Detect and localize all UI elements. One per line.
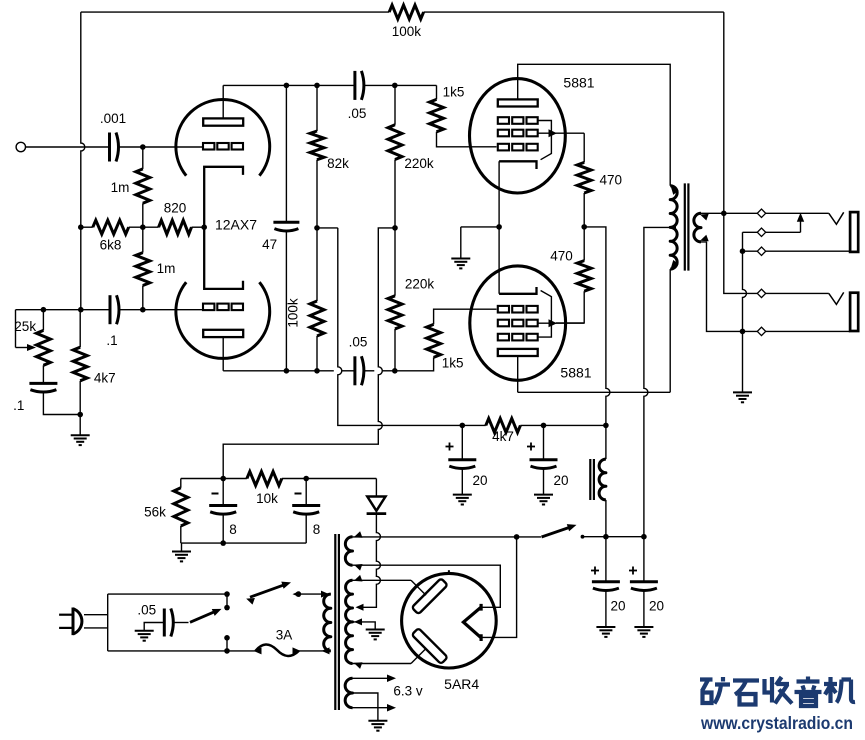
label 3A <box>276 628 293 643</box>
resistor 100k tail <box>310 301 324 336</box>
wire pot stubs <box>42 310 44 384</box>
plate V1b <box>203 330 243 337</box>
wire input to cap <box>26 146 110 148</box>
choke winding <box>599 459 606 500</box>
wire HV CT <box>353 622 376 630</box>
capacitor .05 upper <box>355 71 364 100</box>
svg-text:.05: .05 <box>348 106 367 121</box>
input jack terminal <box>16 142 25 151</box>
label 5AR4 <box>444 676 479 692</box>
fuse 3A <box>254 644 301 656</box>
wire 100k tail stubs <box>316 228 318 371</box>
wire cathode ground segment <box>461 226 499 228</box>
svg-text:56k: 56k <box>144 505 166 520</box>
wire screens to dropper <box>584 227 610 426</box>
wire bias row <box>181 478 377 480</box>
screen lead V2 <box>538 129 584 137</box>
selector arrow <box>797 213 804 233</box>
svg-text:4k7: 4k7 <box>492 429 514 444</box>
node cathodes <box>496 224 502 230</box>
svg-text:100k: 100k <box>285 298 300 328</box>
plug prongs <box>59 615 73 628</box>
resistor 220k upper <box>388 125 402 160</box>
wire lower rail <box>16 309 204 311</box>
wire pot cap to ground rail <box>43 392 80 414</box>
label 220k lower <box>405 277 435 292</box>
wire 1m lower stubs <box>142 227 144 310</box>
jack1 body <box>850 212 858 252</box>
wire diode top <box>375 479 377 497</box>
resistor 820 <box>159 220 192 234</box>
wire 82k stubs <box>316 85 318 228</box>
resistor 100k feedback <box>389 5 423 19</box>
resistor 1k5 lower <box>427 324 441 357</box>
watermark url <box>700 713 853 733</box>
svg-text:5AR4: 5AR4 <box>444 676 479 692</box>
beam bracket V3 <box>538 291 552 338</box>
ground jacks <box>733 392 752 402</box>
label 8 first <box>229 522 237 537</box>
svg-text:1k5: 1k5 <box>443 85 465 100</box>
wire secondary bottom <box>701 242 850 332</box>
svg-text:12AX7: 12AX7 <box>215 217 257 233</box>
label .05 upper <box>348 106 367 121</box>
arrow bias tap <box>356 604 364 611</box>
wire 56k corner <box>180 479 182 488</box>
wire plate V1a up <box>222 85 224 118</box>
node choke top <box>603 423 609 429</box>
wire bias branch x=378.3 <box>223 228 395 479</box>
wire 220k lower stubs <box>394 228 396 371</box>
svg-text:5881: 5881 <box>563 75 594 91</box>
wire 1k5 lower to grid <box>434 309 497 324</box>
wire 5V top to Bplus <box>353 536 517 538</box>
svg-text:470: 470 <box>600 173 623 188</box>
label 5881 lower <box>560 365 591 381</box>
node 6k8 left <box>78 224 84 230</box>
tube V1b 12AX7 envelope <box>176 282 270 358</box>
node 4k7 top <box>78 307 84 313</box>
svg-text:220k: 220k <box>405 277 435 292</box>
svg-text:1m: 1m <box>111 180 130 195</box>
resistor 10k <box>247 472 282 486</box>
label 6.3 v <box>393 684 423 699</box>
plate V3 <box>498 349 538 356</box>
label plus 4 <box>629 567 637 575</box>
wire 470 upper stubs <box>583 133 585 227</box>
grids V2 <box>498 117 538 150</box>
jack1 tip spring <box>829 212 844 224</box>
resistor 6k8 <box>93 220 129 234</box>
PT primary arrows <box>321 591 330 655</box>
PT HV winding <box>346 580 353 663</box>
svg-text:8: 8 <box>313 522 321 537</box>
cathode V3 <box>499 287 536 294</box>
label 4k7 cathode <box>94 371 116 386</box>
PT 6.3V winding <box>345 678 352 707</box>
node 4k7 bottom <box>77 412 83 418</box>
plate V2 <box>498 99 538 106</box>
wire 470 lower stubs <box>556 227 584 323</box>
wire top feedback rail <box>81 11 724 13</box>
svg-text:20: 20 <box>649 599 664 614</box>
node capswitch contact <box>224 605 230 611</box>
grids V3 <box>498 306 538 341</box>
resistor 1k5 upper <box>430 99 444 131</box>
node standby contact <box>581 535 585 539</box>
capacitor 47 <box>273 85 299 370</box>
tube V3 5881 envelope <box>470 266 566 380</box>
resistor 56k <box>174 488 188 526</box>
wire 6.3 bottom <box>353 704 397 712</box>
wire V1a plate row <box>223 84 395 86</box>
label 20 third <box>610 599 625 614</box>
ground mains cap <box>135 631 154 641</box>
wire ground drop jacks <box>743 232 747 392</box>
label 220k upper <box>404 156 434 171</box>
PT HV arrows <box>354 575 363 669</box>
plate V1a <box>203 118 243 125</box>
hop ext over ground drop <box>0 0 1 1</box>
cathode V2 <box>499 161 536 169</box>
plate V4 lower <box>412 628 448 664</box>
wire cap to grid V1a <box>118 146 203 148</box>
label minus 2 <box>295 493 302 495</box>
label 470 lower <box>550 249 573 264</box>
label 470 upper <box>600 173 623 188</box>
resistor 470 upper <box>577 162 591 193</box>
cathode V1b and feed <box>204 227 243 289</box>
svg-text:.1: .1 <box>13 398 24 413</box>
label 8 second <box>313 522 321 537</box>
svg-text:25k: 25k <box>14 319 36 334</box>
wire tap2 line <box>743 231 801 233</box>
svg-text:10k: 10k <box>256 491 278 506</box>
OPT secondary winding <box>694 213 701 242</box>
label 25k <box>14 319 36 334</box>
plate V4 upper <box>412 578 448 614</box>
PT 5V winding <box>345 537 352 566</box>
svg-text:www.crystalradio.cn: www.crystalradio.cn <box>700 713 853 733</box>
wire cathode feeds V2 <box>498 161 500 293</box>
jack2 body <box>850 293 858 331</box>
grid V1b <box>203 304 243 311</box>
wire mains bottom rail <box>108 650 331 652</box>
svg-text:47: 47 <box>262 237 277 252</box>
label 820 <box>164 201 187 216</box>
label 5881 upper <box>563 75 594 91</box>
label plus 1 <box>446 443 454 451</box>
label .001 <box>100 111 126 126</box>
label 47 <box>262 237 277 252</box>
capacitor .1 coupling <box>110 295 119 324</box>
node 82k top <box>314 83 320 89</box>
node 1m bottom <box>140 307 146 313</box>
tube V1a 12AX7 envelope <box>176 99 270 175</box>
resistor 1m grid upper <box>136 169 150 203</box>
label plus 3 <box>591 567 599 575</box>
resistor 4k7 dropper <box>486 418 521 432</box>
wire HV top to plate <box>353 580 427 595</box>
wire jack1 sleeve line <box>743 250 851 252</box>
node fuse stub a <box>224 635 230 641</box>
ground cathode bus <box>451 259 470 269</box>
label 100k <box>392 24 422 39</box>
ground bias <box>172 552 191 562</box>
svg-text:470: 470 <box>550 249 573 264</box>
node .05b right <box>392 368 398 374</box>
wire HV bottom to plate <box>353 649 427 664</box>
wire mains cap right <box>173 622 189 624</box>
wire 6k8 row <box>81 226 204 228</box>
OPT secondary arrows <box>700 214 709 241</box>
wire filament upper to 5V <box>353 565 501 607</box>
svg-text:6k8: 6k8 <box>100 238 122 253</box>
wire 1k5 upper to grid <box>437 85 497 146</box>
svg-text:6.3 v: 6.3 v <box>393 684 423 699</box>
label .05 lower <box>349 335 368 350</box>
label 20 second <box>553 473 568 488</box>
svg-text:.05: .05 <box>349 335 368 350</box>
beam bracket V2 <box>538 121 552 160</box>
cathode V1a and feed <box>204 167 243 227</box>
wire 1m stubs <box>142 147 144 227</box>
wire 4k7 row <box>462 424 606 426</box>
node Bplus cap <box>641 534 647 540</box>
node Bplus choke <box>603 534 609 540</box>
wire V1b plate row <box>223 370 395 372</box>
resistor 4k7 cathode <box>73 347 87 381</box>
wire branch x=337.8 <box>338 228 463 426</box>
capacitor .05 lower <box>355 356 364 385</box>
svg-text:1k5: 1k5 <box>442 356 464 371</box>
wire 4k7 stubs <box>79 310 81 415</box>
wire jog 82k junction <box>317 227 338 229</box>
wire mains cap left <box>144 623 164 631</box>
capacitor 20 second <box>530 425 558 494</box>
node tap3 <box>740 248 746 254</box>
svg-text:3A: 3A <box>276 628 293 643</box>
node 47cap top <box>284 83 290 89</box>
ground input stage <box>71 435 90 445</box>
capacitor 20 first <box>448 425 476 494</box>
node pot top <box>41 307 47 313</box>
label .1 coupling <box>106 333 117 348</box>
svg-text:.1: .1 <box>106 333 117 348</box>
label minus 1 <box>212 493 219 495</box>
label 1k5 upper <box>443 85 465 100</box>
diamond tap3 <box>757 247 765 255</box>
wire 56k bottom <box>180 526 182 543</box>
OPT primary winding <box>670 186 677 269</box>
label 10k <box>256 491 278 506</box>
filament V4 <box>463 604 481 641</box>
ground filter4 <box>634 627 653 637</box>
wire mains top rail <box>108 593 331 595</box>
node filter2 <box>541 423 547 429</box>
wire Bplus link <box>583 536 644 538</box>
watermark chinese <box>700 677 855 707</box>
svg-text:.001: .001 <box>100 111 126 126</box>
diamond tap2 <box>757 228 765 236</box>
wire to 1k5 lower <box>395 357 434 370</box>
node 220k junction <box>392 225 398 231</box>
node feedback tap <box>721 211 727 217</box>
label 20 first <box>472 473 487 488</box>
node 100k tail bottom <box>314 368 320 374</box>
node switch left <box>224 591 230 597</box>
node Bplus takeoff <box>514 534 520 540</box>
node switch right <box>293 591 302 597</box>
label 82k <box>327 156 349 171</box>
label 6k8 <box>100 238 122 253</box>
ground filter1 <box>453 495 472 505</box>
svg-text:1m: 1m <box>157 261 176 276</box>
resistor 470 lower <box>577 261 591 292</box>
node 820 junction <box>140 224 146 230</box>
wire plug to rails <box>84 594 108 651</box>
wire filament lower to Bplus <box>481 537 516 638</box>
wire right feedback drop x=723.8 <box>723 12 725 213</box>
PT core <box>335 534 339 710</box>
svg-text:100k: 100k <box>392 24 422 39</box>
svg-text:820: 820 <box>164 201 187 216</box>
svg-text:20: 20 <box>610 599 625 614</box>
label 12AX7 <box>215 217 257 233</box>
wire ground stem input <box>79 415 81 436</box>
capacitor 20 fourth <box>630 537 658 627</box>
capacitor 20 third <box>592 537 620 627</box>
wire to 1k5 upper <box>395 84 437 86</box>
wire 6.3 top <box>353 675 397 683</box>
node screens <box>581 224 587 230</box>
node 82k bottom <box>314 225 320 231</box>
svg-text:.05: .05 <box>137 603 156 618</box>
wire cap switch stub <box>226 594 228 608</box>
wire bias bottom rail <box>181 542 306 544</box>
node fuse stub b <box>224 648 230 654</box>
wire ground stem bus <box>460 227 462 259</box>
svg-text:20: 20 <box>553 473 568 488</box>
wire left feedback drop x=80.8 <box>81 12 85 310</box>
svg-text:4k7: 4k7 <box>94 371 116 386</box>
wire ext line <box>724 213 829 293</box>
wire plate V3 to OPT <box>518 269 671 392</box>
node cathode junction V1 <box>201 224 207 230</box>
resistor 82k <box>310 131 324 160</box>
potentiometer 25k <box>36 330 50 365</box>
node 47cap bottom <box>284 368 290 374</box>
resistor 220k lower <box>388 296 402 329</box>
capacitor .1 pot <box>29 383 57 392</box>
svg-text:8: 8 <box>229 522 237 537</box>
node filter1 <box>460 423 466 429</box>
wire choke stubs <box>605 425 607 536</box>
ground HV CT <box>366 630 385 640</box>
switch standby <box>517 524 577 537</box>
resistor 1m grid lower <box>136 253 150 286</box>
diamond tap4 <box>757 289 765 297</box>
jack2 tip spring <box>829 292 844 304</box>
node bias bottom <box>220 540 226 546</box>
wire diode to HV tap <box>361 514 380 608</box>
ground 6.3 CT <box>368 721 387 731</box>
wiper 25k <box>16 310 37 351</box>
label 20 fourth <box>649 599 664 614</box>
tube V4 5AR4 envelope <box>402 570 497 668</box>
label plus 2 <box>527 443 535 451</box>
grid V1a <box>203 143 243 150</box>
diode D1 <box>367 497 387 514</box>
label 1m upper <box>111 180 130 195</box>
PT 5V arrows <box>354 531 363 570</box>
capacitor 8 second <box>292 479 320 544</box>
capacitor .001 input <box>110 133 119 162</box>
screen lead V3 <box>538 319 584 327</box>
capacitor .05 mains <box>164 609 173 637</box>
capacitor 8 first <box>209 479 237 544</box>
OPT center tap wire <box>644 227 670 536</box>
wire fuse stub <box>226 638 228 651</box>
label 1k5 lower <box>442 356 464 371</box>
node bias cap2 <box>303 476 309 482</box>
ground filter3 <box>596 627 615 637</box>
choke core <box>590 459 594 500</box>
wire ground stem bias <box>181 543 183 551</box>
switch mains arm <box>246 582 291 605</box>
diamond tap1 <box>757 209 765 217</box>
node input grid junction <box>140 144 146 150</box>
diamond tap5 <box>757 327 765 335</box>
wire plate V1b down <box>222 337 224 371</box>
label .1 pot <box>13 398 24 413</box>
OPT core <box>685 183 689 270</box>
plug body <box>73 608 82 636</box>
OPT primary arrows <box>668 187 679 269</box>
wire secondary top line <box>701 212 829 214</box>
wire 220k upper stubs <box>394 85 396 228</box>
label .05 mains <box>137 603 156 618</box>
svg-text:5881: 5881 <box>560 365 591 381</box>
switch cap arm <box>190 609 222 622</box>
node jack2 sleeve <box>740 329 746 335</box>
ground filter2 <box>534 495 553 505</box>
label 56k <box>144 505 166 520</box>
svg-text:220k: 220k <box>404 156 434 171</box>
svg-text:20: 20 <box>472 473 487 488</box>
PT primary winding <box>324 594 331 651</box>
node .05a right <box>392 83 398 89</box>
wire 6.3 mid to ground <box>353 693 378 721</box>
node bias cap1 <box>220 476 226 482</box>
label 4k7 dropper <box>492 429 514 444</box>
tube V2 5881 envelope <box>470 79 566 193</box>
svg-text:82k: 82k <box>327 156 349 171</box>
label 100k tail <box>285 298 300 328</box>
label 1m lower <box>157 261 176 276</box>
wire plate V2 to OPT <box>518 64 671 185</box>
